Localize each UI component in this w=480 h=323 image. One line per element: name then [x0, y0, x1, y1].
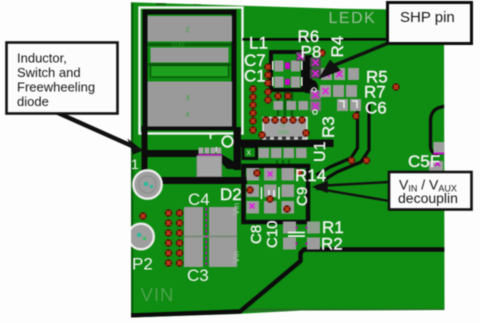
diode D2 courtyard box — [244, 166, 309, 222]
svg-text:U: U — [281, 123, 285, 129]
svg-text:C8: C8 — [248, 225, 265, 244]
connector P1 — [133, 170, 161, 198]
inductor pad gap line — [148, 43, 231, 46]
svg-text:C3: C3 — [187, 266, 209, 285]
inductor green bar pad — [151, 66, 229, 78]
wire: black bar from inductor to P1 — [142, 126, 148, 172]
pad split line — [184, 236, 237, 238]
svg-text:Freewheeling: Freewheeling — [17, 80, 95, 95]
wire: junction blob — [219, 154, 237, 169]
inductor pad 2 — [148, 16, 233, 42]
resistor R7 pads — [320, 85, 357, 97]
board edge shading bottom right — [240, 309, 445, 312]
wire: SHP net vertical black streak — [305, 55, 312, 93]
inductor region white silkscreen box — [140, 8, 243, 134]
magenta dashed centerline — [205, 208, 207, 266]
wire: SHP net blob — [308, 80, 318, 96]
wire: vertical bar right of inductor — [234, 127, 242, 170]
svg-text:U1: U1 — [312, 141, 329, 162]
mounting hole arc right edge — [431, 106, 448, 155]
capacitor C7/C1 courtyard box — [271, 52, 303, 90]
wire: big bottom trace — [131, 250, 445, 316]
resistor R1 pads — [283, 222, 296, 234]
svg-text:R2: R2 — [321, 235, 343, 254]
callout box: SHP pin — [388, 3, 472, 44]
svg-text:1: 1 — [131, 156, 139, 172]
svg-text:C1: C1 — [244, 67, 266, 86]
svg-text:x: x — [247, 147, 252, 157]
svg-text:SHP pin: SHP pin — [400, 9, 455, 26]
svg-text:2: 2 — [186, 27, 190, 34]
pads row under thick bar — [259, 148, 307, 158]
wire: thick horizontal bar under U1 — [234, 140, 334, 148]
labels (white silkscreen designators) — [220, 27, 440, 254]
svg-text:C6: C6 — [365, 99, 387, 118]
callout box: Inductor Switch Freewheeling diode — [7, 43, 118, 114]
callout arrow: VIN/VAUX decoupling — [312, 181, 390, 202]
wire: vertical trace V1 with bend — [316, 99, 358, 175]
svg-text:C10: C10 — [264, 220, 281, 248]
wire: trace B from P1 to D2 box — [157, 177, 247, 184]
svg-text:P8: P8 — [301, 43, 322, 62]
svg-text:GND: GND — [278, 130, 290, 136]
capacitor C1 pads — [275, 77, 284, 88]
connector P2 — [128, 224, 154, 250]
resistor R5 pads — [321, 68, 359, 80]
capacitor C4/C3 right pad column — [209, 207, 237, 267]
white D marker near D1 — [222, 136, 232, 146]
capacitor C4/C3 left pad column — [184, 207, 203, 267]
wire: trace A to D1 — [142, 150, 199, 157]
magenta x near C5 — [435, 161, 440, 166]
dark traces above U1 — [278, 92, 292, 116]
fiducial box with x — [243, 147, 257, 159]
svg-text:C4: C4 — [188, 190, 210, 209]
white ticks C7/C1 — [273, 61, 302, 86]
capacitor C5 pad upper — [434, 142, 446, 153]
resistor P8 pads row below box — [274, 101, 309, 110]
dark traces above D2 box — [277, 160, 289, 167]
svg-text:R4: R4 — [328, 36, 347, 58]
D2 cluster pads 3x3 — [247, 168, 295, 214]
transistor D1 pads — [197, 148, 222, 177]
svg-text:decouplin: decouplin — [398, 190, 458, 206]
IC U1 body — [263, 118, 307, 140]
inductor pad gap dark band 2 — [148, 63, 231, 66]
dark pad with X near P8 — [296, 52, 305, 61]
inductor pad 3/4 — [148, 82, 233, 127]
svg-text:Switch and: Switch and — [17, 65, 81, 80]
silk mark top B — [193, 1, 201, 5]
svg-text:C5F: C5F — [408, 152, 440, 171]
inductor middle pad — [151, 48, 229, 63]
svg-text:Vin: Vin — [231, 203, 241, 215]
magenta X marks on pads — [250, 60, 343, 209]
svg-text:4: 4 — [186, 112, 190, 119]
svg-text:LEDK: LEDK — [329, 10, 377, 27]
svg-text:D2: D2 — [220, 185, 242, 204]
svg-text:P2: P2 — [132, 255, 153, 274]
magenta dots R1 R2 — [296, 227, 308, 245]
vias (plated through holes) — [165, 210, 171, 216]
white pin marks in D2 box — [262, 187, 280, 199]
svg-text:C9: C9 — [294, 187, 311, 206]
silk mark top A — [156, 0, 166, 5]
svg-text:R14: R14 — [295, 166, 326, 185]
capacitor C5 pad lower — [429, 161, 443, 171]
svg-text:3: 3 — [186, 95, 190, 102]
capacitor C7 pads — [275, 61, 284, 72]
callout box: VIN/VAUX decouplin — [389, 172, 472, 210]
svg-text:R3: R3 — [319, 116, 338, 138]
svg-text:diode: diode — [17, 94, 49, 109]
svg-text:Inductor,: Inductor, — [17, 51, 67, 66]
callout arrow: SHP pin — [319, 42, 392, 79]
resistor R2 pads — [283, 238, 296, 250]
wire: vertical trace V2 with bend — [324, 104, 369, 180]
inductor L courtyard black outline — [145, 12, 234, 128]
SHP pin pads (black with magenta X) — [310, 58, 321, 112]
svg-text:VIN: VIN — [141, 284, 175, 305]
white hooks on C6 pads — [339, 101, 357, 108]
callout arrow: inductor — [57, 113, 143, 155]
svg-text:L1: L1 — [249, 34, 268, 53]
small white rings — [312, 88, 316, 92]
PCB board outline — [131, 2, 445, 317]
capacitor C6 pads — [337, 99, 361, 111]
white = marks between R1/R2 — [288, 232, 305, 234]
wire: thin top line — [243, 38, 389, 41]
svg-text:Vin: Vin — [231, 251, 241, 263]
board edge shading left — [131, 3, 133, 318]
